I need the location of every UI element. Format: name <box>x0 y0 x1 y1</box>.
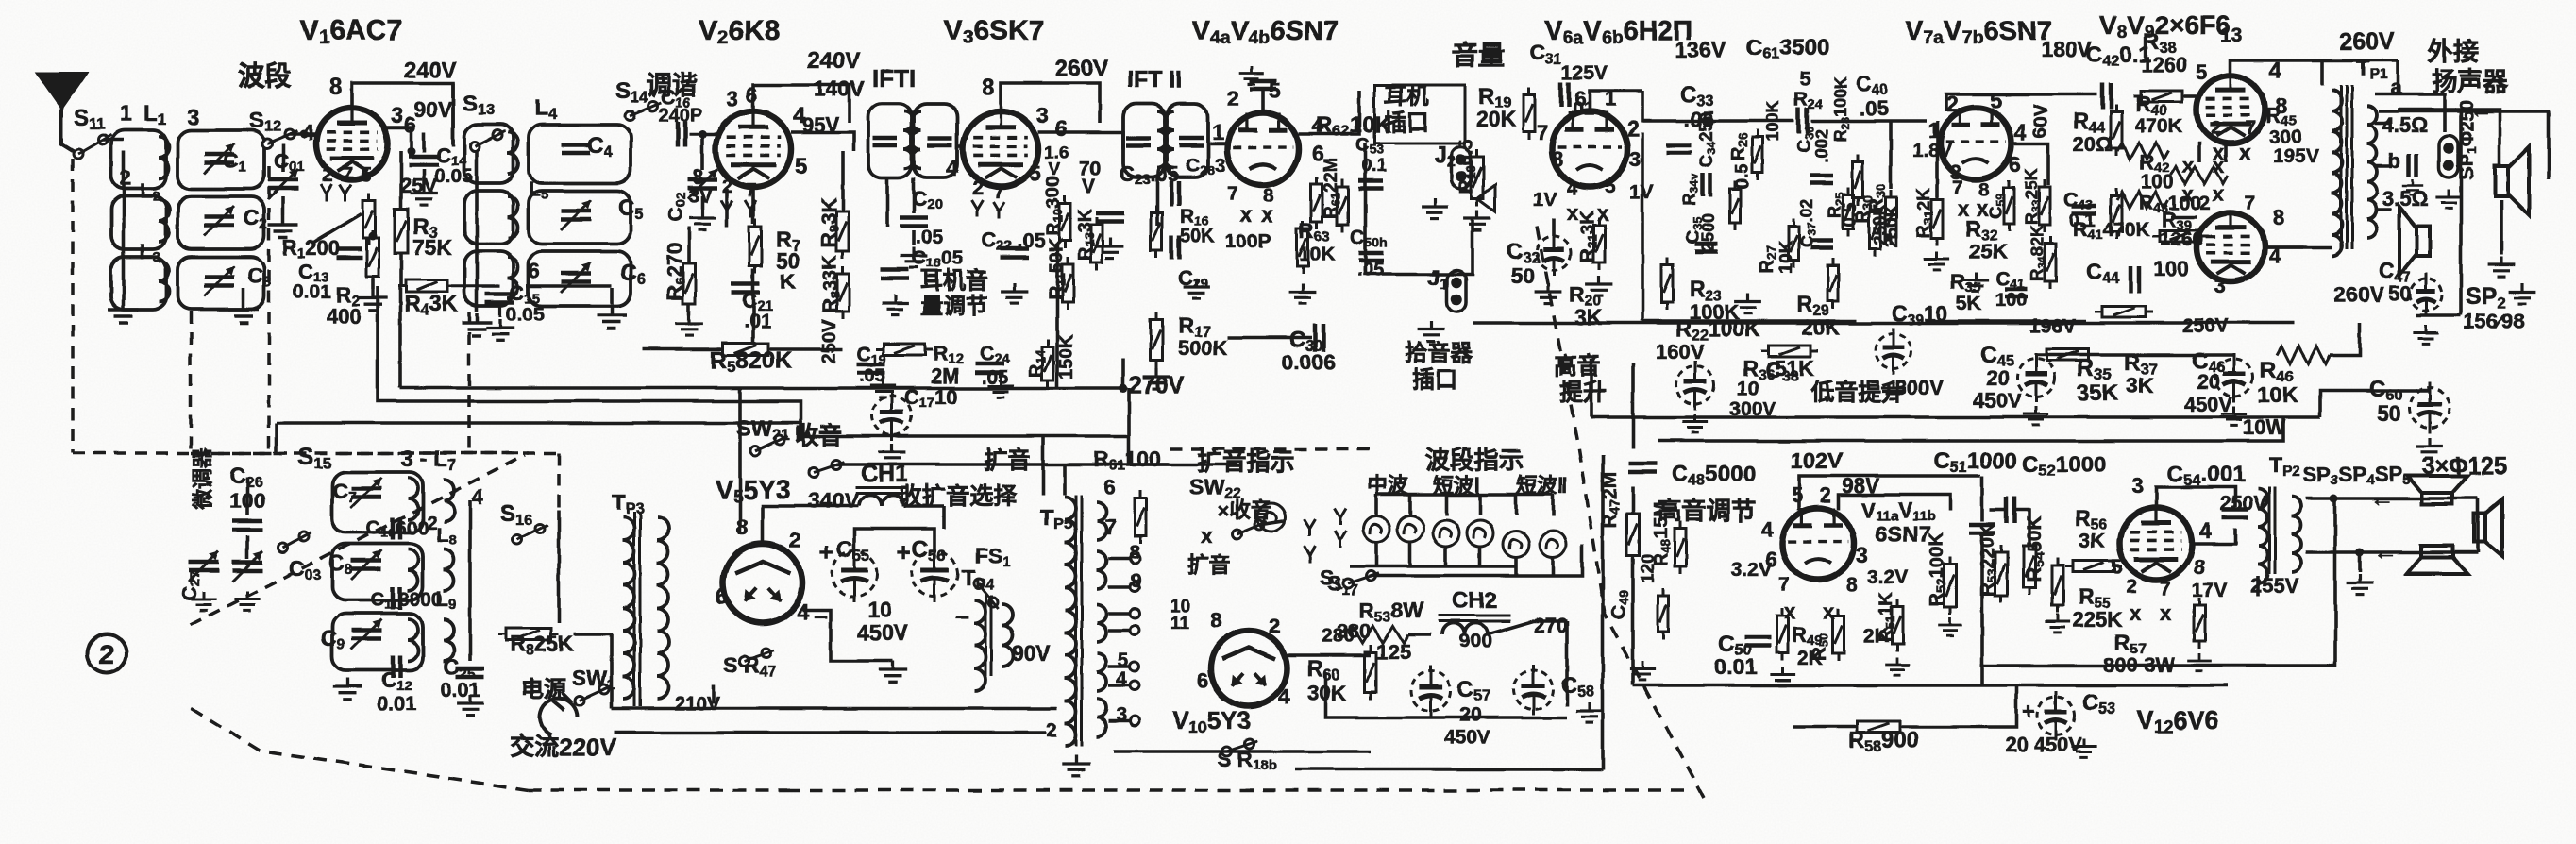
svg-text:R6122M: R6122M <box>1322 158 1342 219</box>
capacitor C14 <box>409 157 439 165</box>
svg-text:V105Y3: V105Y3 <box>1172 706 1251 736</box>
resistor R11 <box>1062 257 1073 310</box>
resistor R4 <box>398 280 455 293</box>
plug AC <box>540 693 578 734</box>
svg-text:2: 2 <box>1820 483 1831 507</box>
svg-text:136V: 136V <box>1675 37 1726 61</box>
ground C03v <box>234 591 260 610</box>
wire 240V drop <box>451 83 455 146</box>
coil L6 <box>508 257 518 298</box>
dashed shield left vertical <box>71 159 75 453</box>
tube V9 6F6 <box>2197 213 2265 281</box>
wire lamp verticals <box>1374 542 1378 566</box>
svg-text:R10300: R10300 <box>1043 177 1065 236</box>
svg-text:x: x <box>2213 182 2225 206</box>
tank L1 <box>111 130 166 189</box>
ground osc bank <box>333 678 362 700</box>
svg-text:x: x <box>1240 203 1253 227</box>
electrolytic C57 <box>1411 666 1451 717</box>
svg-text:7: 7 <box>1952 177 1963 199</box>
svg-text:←: ← <box>2369 483 2394 512</box>
svg-text:5: 5 <box>795 154 807 179</box>
svg-text:90V: 90V <box>413 97 453 122</box>
resistor R52 <box>1945 556 1957 615</box>
wire AVC riser <box>398 286 402 313</box>
dashed diagonal left <box>191 455 525 625</box>
ground R52 <box>1938 617 1962 635</box>
wire vertical 1196 <box>1127 388 1131 436</box>
dashed vertical x592 <box>557 453 561 510</box>
svg-text:280: 280 <box>1322 625 1355 647</box>
svg-text:450V: 450V <box>857 620 908 645</box>
coil L2 <box>159 200 169 242</box>
wire V2 to IFT1 <box>791 132 854 151</box>
resistor R35b <box>2039 349 2096 361</box>
resistor R9 <box>837 204 850 259</box>
svg-text:x: x <box>2182 154 2195 177</box>
svg-text:高音: 高音 <box>1554 352 1601 380</box>
capacitor C42 <box>2103 83 2112 110</box>
resistor R38 <box>2133 91 2190 102</box>
page number circle 2 <box>87 633 126 673</box>
svg-text:500K: 500K <box>1178 336 1228 360</box>
svg-text:b: b <box>2388 149 2400 173</box>
svg-text:50: 50 <box>2377 401 2401 426</box>
wire R31 to bus <box>1935 121 1939 198</box>
capacitor IFT2a <box>1126 138 1151 145</box>
wire V9 to TP1 <box>2265 245 2332 249</box>
capacitor C25 <box>456 668 484 677</box>
wire R9 col <box>841 151 845 210</box>
svg-text:10K: 10K <box>2258 382 2298 407</box>
lamp MW2 <box>1397 515 1423 542</box>
variable capacitor C3 <box>204 278 234 286</box>
resistor R34 <box>2045 236 2056 289</box>
wire SP1 to ground <box>2500 200 2503 255</box>
svg-text:35K: 35K <box>2077 380 2119 406</box>
wire TP1 a lead <box>2375 94 2445 132</box>
svg-text:3K: 3K <box>2079 529 2105 552</box>
svg-text:4: 4 <box>472 485 484 509</box>
electrolytic C53b <box>2037 691 2075 740</box>
electrolytic C46 <box>2215 353 2253 402</box>
coil L9 <box>408 619 418 661</box>
wire R5 bus <box>642 347 721 351</box>
svg-text:125: 125 <box>1376 640 1411 664</box>
ground C02 <box>689 210 716 230</box>
svg-text:7: 7 <box>2245 117 2256 139</box>
resistor R3 <box>395 202 408 261</box>
svg-text:8: 8 <box>2194 555 2205 579</box>
wire 270V bus <box>400 386 1123 390</box>
wire osc taps <box>468 500 472 661</box>
transformer TP5 core <box>1076 495 1082 746</box>
svg-text:V55Y3: V55Y3 <box>716 475 790 507</box>
transformer TP2 secondary <box>2292 497 2301 572</box>
capacitor C35 <box>1695 244 1718 251</box>
coil L3 <box>159 261 169 302</box>
svg-text:3V: 3V <box>688 186 713 208</box>
svg-text:400: 400 <box>327 304 362 328</box>
wire CH1 <box>831 504 859 508</box>
svg-text:250V: 250V <box>819 319 840 363</box>
ground SP2 <box>2509 283 2536 304</box>
electrolytic C39 <box>1876 328 1911 375</box>
resistor R28 <box>1853 154 1863 205</box>
lamp PA <box>1257 503 1286 532</box>
svg-text:R180.5: R180.5 <box>1456 140 1478 194</box>
svg-text:2: 2 <box>972 177 984 199</box>
wire V1 plate 240V <box>352 83 453 143</box>
svg-text:1V: 1V <box>1533 189 1557 211</box>
switch SW21b <box>809 460 844 477</box>
transformer TP5 primary <box>1065 497 1076 746</box>
capacitor C51 <box>1969 525 1995 533</box>
ground C47 <box>2413 325 2438 344</box>
svg-text:音量: 音量 <box>1452 40 1505 70</box>
heater arrow V3a <box>971 200 983 217</box>
svg-text:20: 20 <box>1986 366 2009 390</box>
coil L9b <box>444 619 454 661</box>
wire bus left vertical <box>1590 359 1593 417</box>
wire TP2 primary top <box>2256 576 2260 597</box>
padder C11 <box>393 587 400 610</box>
svg-text:CH2: CH2 <box>1452 588 1497 614</box>
speaker SP3 <box>2407 476 2467 504</box>
resistor R1 <box>363 193 376 245</box>
tank L5 <box>464 191 514 244</box>
capacitor IFT2b <box>1179 138 1204 145</box>
svg-text:4: 4 <box>1761 516 1774 541</box>
resistor R55 <box>2052 558 2063 613</box>
svg-text:2: 2 <box>1627 116 1640 141</box>
tank C6 <box>529 251 631 306</box>
capacitor C30 <box>1316 324 1324 352</box>
padder C12 <box>393 655 400 678</box>
variable capacitor C6 <box>561 274 591 282</box>
svg-text:1.8V: 1.8V <box>1912 141 1952 161</box>
capacitor C4 <box>562 145 590 153</box>
svg-text:R61100: R61100 <box>1093 447 1161 474</box>
svg-text:x: x <box>2160 601 2172 625</box>
wire V1 screen <box>381 127 412 151</box>
resistor R16 <box>1151 205 1162 258</box>
wire V7 plate to C42 <box>1946 94 2097 111</box>
coil L7 <box>408 478 418 519</box>
svg-text:3: 3 <box>187 105 199 130</box>
wire B+ to V5 <box>738 388 742 534</box>
trimmer C27 <box>189 563 219 571</box>
svg-text:50: 50 <box>1510 263 1535 288</box>
ground V7 cath <box>1962 272 1988 291</box>
svg-text:8: 8 <box>982 75 994 100</box>
capacitor C19 <box>857 364 885 373</box>
pot wiper R18 <box>1477 185 1495 211</box>
resistor R8b 25K <box>498 629 559 641</box>
jack J1 <box>1447 270 1466 312</box>
ground J1 <box>1418 321 1445 342</box>
tube V6a V6b 6H2P <box>1552 111 1627 187</box>
tube V10 5Y3 <box>1211 631 1287 706</box>
wire R2 ground <box>371 278 375 289</box>
wire C51 col <box>1980 476 1984 521</box>
wire v10 bottom <box>1114 750 1371 753</box>
wire out cathode bus <box>2036 353 2234 357</box>
resistor R5 <box>716 344 776 356</box>
wire tone col 1740 <box>1641 132 1644 321</box>
svg-text:102V: 102V <box>1790 448 1843 474</box>
svg-text:C54.001: C54.001 <box>2167 462 2245 489</box>
resistor 120r <box>1658 588 1669 639</box>
svg-text:3: 3 <box>1036 103 1049 127</box>
lamp SW1b <box>1467 520 1493 547</box>
svg-text:x: x <box>2213 154 2225 177</box>
wire R1 diag callout <box>311 213 362 244</box>
lamp SW2b <box>1540 531 1566 557</box>
capacitor IFT1a <box>873 138 898 145</box>
svg-text:450V: 450V <box>1973 389 2022 413</box>
wire R6 gnd <box>687 304 691 315</box>
resistor R58 <box>1849 721 1908 733</box>
svg-text:195V: 195V <box>2273 145 2319 167</box>
svg-text:225K: 225K <box>2073 608 2123 632</box>
wire R58 loop <box>1793 725 1855 729</box>
wire R38 to V8 <box>2184 94 2199 98</box>
wire select ext <box>1170 463 1237 466</box>
variable capacitor C8 <box>351 561 381 569</box>
transformer TP2 primary <box>2258 489 2267 583</box>
svg-text:20K: 20K <box>1476 107 1517 131</box>
wire speaker ground tap <box>2358 552 2362 572</box>
svg-text:180V: 180V <box>2041 37 2092 61</box>
wire S12 to V1 grid <box>290 132 317 136</box>
svg-text:C113000: C113000 <box>370 589 443 613</box>
ground b tap <box>2402 179 2423 195</box>
transformer TP1 core <box>2341 85 2352 249</box>
arrow yb <box>1335 531 1346 548</box>
svg-text:收音: 收音 <box>795 422 842 449</box>
svg-text:450V: 450V <box>1444 727 1490 749</box>
svg-text:5: 5 <box>1029 162 1040 186</box>
wire bottom bus ext <box>614 731 742 734</box>
svg-text:5: 5 <box>1990 88 2002 112</box>
svg-text:10: 10 <box>1737 378 1759 399</box>
heater arrow V3b <box>993 202 1004 219</box>
wire C15 gnd <box>498 307 501 317</box>
svg-text:3: 3 <box>2131 473 2144 498</box>
svg-text:3.2V: 3.2V <box>1867 566 1908 588</box>
ground C25 <box>457 695 484 716</box>
ground C55 C56 <box>879 661 907 683</box>
ground <box>1239 66 1264 84</box>
svg-text:波段: 波段 <box>238 60 291 91</box>
wire C55 bus <box>854 529 934 551</box>
wire volume feed vertical <box>1365 143 1388 274</box>
svg-text:3K: 3K <box>2126 373 2154 397</box>
svg-text:260V: 260V <box>2339 28 2395 55</box>
capacitor C41 <box>2005 289 2028 296</box>
tank L3 <box>111 257 166 310</box>
svg-text:←: ← <box>2469 97 2492 123</box>
switch S13 <box>470 130 505 151</box>
capacitor C34 <box>1703 174 1710 196</box>
ground C24 <box>987 378 1013 397</box>
coil L8b <box>444 549 454 591</box>
indicator box right <box>1601 455 1605 769</box>
svg-text:0.01: 0.01 <box>1714 654 1757 679</box>
svg-text:2: 2 <box>1227 86 1239 110</box>
svg-text:R43K: R43K <box>404 292 459 319</box>
wire CH2 net <box>1408 633 1431 636</box>
svg-text:3.5Ω: 3.5Ω <box>2382 187 2428 211</box>
svg-text:C485000: C485000 <box>1672 462 1756 489</box>
svg-text:8: 8 <box>1846 574 1858 596</box>
speaker SP5 <box>2474 499 2502 556</box>
wire R13 col down <box>1055 245 1059 388</box>
tank C5 <box>529 191 631 244</box>
svg-text:耳机音: 耳机音 <box>920 267 988 294</box>
ground C60 <box>2416 438 2444 459</box>
coil L5 <box>508 196 518 238</box>
capacitor C33 <box>1666 145 1691 153</box>
svg-text:60V: 60V <box>2030 104 2051 138</box>
capacitor C28a <box>1171 181 1179 206</box>
svg-text:8: 8 <box>1552 147 1563 171</box>
lamp SW2a <box>1503 531 1529 557</box>
svg-text:量调节: 量调节 <box>920 294 988 319</box>
svg-text:R825K: R825K <box>510 632 574 659</box>
resistor R8 <box>837 266 850 319</box>
wire C20 gnd <box>912 230 916 245</box>
wire speaker feed <box>2398 110 2500 164</box>
svg-text:微调器: 微调器 <box>191 447 214 511</box>
resistor R40 <box>2111 105 2122 156</box>
transformer TP3 primary <box>623 517 634 699</box>
svg-text:340V: 340V <box>808 488 859 513</box>
ground J2 <box>1422 198 1449 219</box>
resistor R39h <box>2152 230 2209 242</box>
arrow y2 <box>1305 546 1316 563</box>
capacitor C13 <box>336 249 362 258</box>
svg-text:R28100K: R28100K <box>1831 76 1852 142</box>
switch SW22w <box>1232 520 1267 539</box>
svg-text:4: 4 <box>2199 518 2212 543</box>
wire C52 branch <box>1990 508 2005 512</box>
svg-text:x: x <box>2239 141 2251 164</box>
transformer TP1 secondary <box>2367 106 2377 238</box>
svg-text:5: 5 <box>2196 60 2207 84</box>
svg-text:耳机: 耳机 <box>1384 84 1429 110</box>
wire IFT2 to V4 <box>1210 142 1227 145</box>
wire IF buses <box>1155 177 1159 225</box>
tube V2 6K8 <box>716 111 791 187</box>
coil L7b <box>444 480 454 521</box>
capacitor C26 <box>232 521 262 530</box>
transformer TP3 core <box>634 512 640 706</box>
svg-text:扬声器: 扬声器 <box>2432 68 2509 96</box>
resistor R61v2 <box>1135 491 1146 544</box>
svg-text:100: 100 <box>2141 172 2174 194</box>
svg-text:R1200: R1200 <box>282 236 340 262</box>
wire output bus bottom <box>1658 417 2283 441</box>
wire bus drop left <box>398 313 402 388</box>
wire select lines <box>836 463 1170 466</box>
svg-text:V26K8: V26K8 <box>699 15 780 48</box>
wire V12 out <box>2192 529 2235 544</box>
svg-text:2: 2 <box>2211 117 2222 139</box>
ground C18 <box>882 295 909 315</box>
coil L1 <box>159 137 169 178</box>
svg-text:x: x <box>2130 601 2142 625</box>
ground speaker loop <box>2347 574 2374 595</box>
tank L2 <box>111 196 166 249</box>
capacitor C54 <box>2222 510 2248 518</box>
lamp SW1a <box>1433 520 1459 547</box>
wire S16 drop <box>557 510 561 623</box>
capacitor C50h <box>1358 253 1383 261</box>
svg-text:x: x <box>2182 182 2195 206</box>
arrow ya <box>1335 508 1346 525</box>
svg-text:C511000: C511000 <box>1933 448 2017 476</box>
tank C2 <box>177 196 264 249</box>
wire TP1 sec to SP1 <box>2379 111 2549 179</box>
speaker SP1 cone <box>2495 147 2529 215</box>
svg-text:50K: 50K <box>1180 226 1215 246</box>
resistor R63 <box>1297 221 1308 274</box>
electrolytic C56 <box>912 546 957 602</box>
svg-text:8: 8 <box>329 75 342 100</box>
resistor R26 <box>1753 129 1763 180</box>
resistor R33 <box>2039 179 2050 232</box>
tube V12 6V6 <box>2120 508 2192 580</box>
dashed shield x285 <box>267 166 271 453</box>
svg-text:交流220V: 交流220V <box>510 733 616 761</box>
ground R57 <box>2187 653 2212 671</box>
ground R63 <box>1289 283 1317 304</box>
svg-text:IFTI: IFTI <box>872 64 916 93</box>
svg-text:R3651K: R3651K <box>1743 356 1815 383</box>
svg-text:1: 1 <box>120 101 132 127</box>
switch S12 <box>262 129 297 148</box>
wire V9 grid <box>2171 215 2197 219</box>
resistor R60 <box>1365 645 1376 700</box>
capacitor C18 <box>881 270 909 279</box>
ground C-bank <box>228 300 259 323</box>
svg-text:120: 120 <box>1639 553 1658 583</box>
ground tone <box>1735 293 1762 313</box>
resistor R49 <box>1776 608 1788 661</box>
svg-text:.002: .002 <box>1812 129 1831 162</box>
svg-text:0.01: 0.01 <box>293 281 331 303</box>
svg-text:5: 5 <box>1792 483 1803 507</box>
wire lamp stems <box>1374 495 1378 515</box>
wire V2 240V <box>753 85 850 123</box>
tube V1 6AC7 <box>316 108 388 179</box>
capacitor C15 <box>485 295 515 303</box>
resistor drive zig <box>2171 167 2228 184</box>
svg-text:2: 2 <box>1269 614 1280 637</box>
potentiometer R18 <box>1472 149 1484 206</box>
resistor R56 <box>2065 561 2122 572</box>
switch S17w <box>1343 571 1378 588</box>
wire C-bank to ground <box>242 288 245 300</box>
ground C49 <box>1629 661 1655 680</box>
svg-text:4: 4 <box>1567 178 1578 199</box>
svg-text:R93K: R93K <box>817 198 843 247</box>
switch R47 <box>739 649 774 666</box>
ground SP1 <box>2488 257 2516 278</box>
variable capacitor C7 <box>351 489 381 498</box>
